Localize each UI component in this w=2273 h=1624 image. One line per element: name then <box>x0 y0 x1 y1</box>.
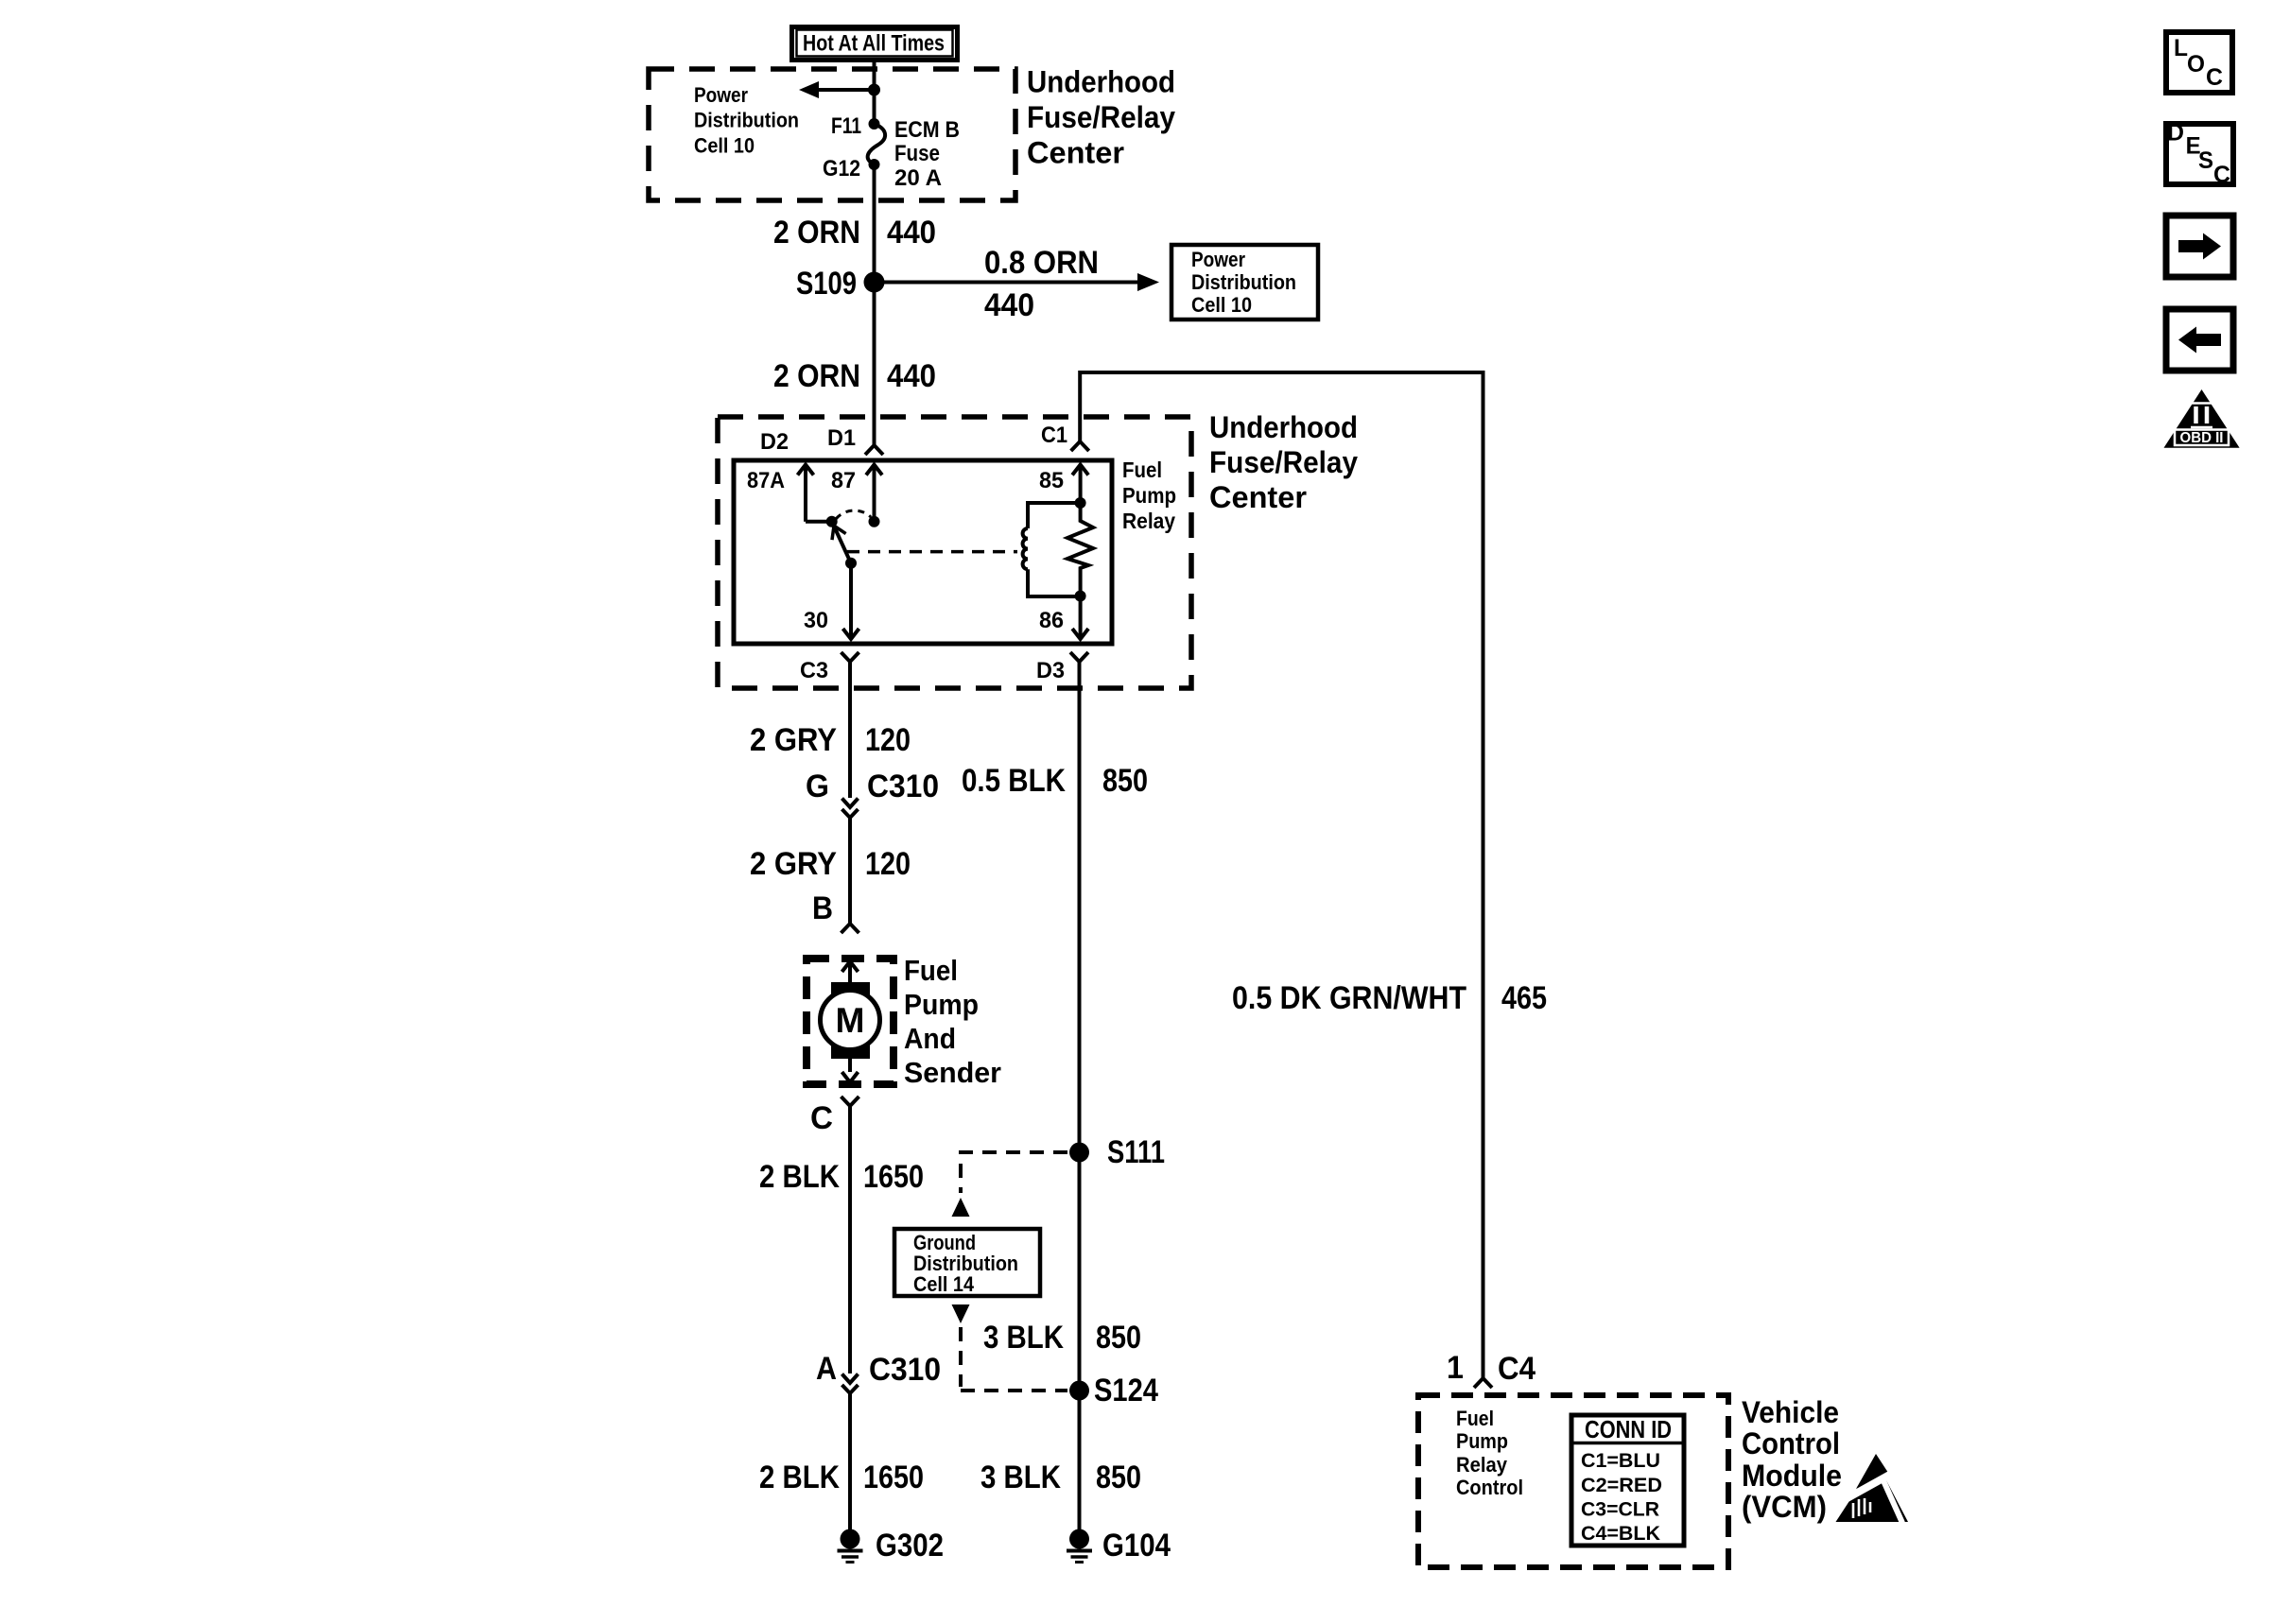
wire label: 0.8 ORN 440 <box>984 245 1099 323</box>
svg-text:120: 120 <box>865 722 911 758</box>
ESD sensitive symbol <box>1836 1454 1909 1523</box>
svg-text:CONN ID: CONN ID <box>1585 1415 1672 1443</box>
svg-text:85: 85 <box>1039 468 1064 493</box>
svg-text:Hot At All Times: Hot At All Times <box>803 31 945 57</box>
svg-text:(VCM): (VCM) <box>1742 1490 1827 1524</box>
svg-text:2 BLK: 2 BLK <box>759 1460 840 1495</box>
node S111 <box>1069 1134 1165 1170</box>
label: ECM B Fuse 20 A <box>894 117 960 191</box>
connector B <box>812 890 859 933</box>
svg-text:C: C <box>810 1100 833 1136</box>
svg-text:2 BLK: 2 BLK <box>759 1159 840 1195</box>
connector D3 <box>1036 652 1088 683</box>
svg-text:30: 30 <box>804 608 828 633</box>
connector C1 <box>1041 423 1089 451</box>
wire: D3 to S111 (0.5 BLK 850) <box>1078 662 1082 1391</box>
wire label: 2 BLK 1650 <box>759 1460 924 1495</box>
relay pin 87A <box>747 465 832 522</box>
icon: DESC box <box>2166 120 2233 188</box>
connector C <box>810 1097 859 1136</box>
svg-text:B: B <box>812 890 833 926</box>
connector D1 <box>827 425 883 455</box>
svg-text:G104: G104 <box>1102 1528 1171 1564</box>
svg-text:2 ORN: 2 ORN <box>773 215 860 251</box>
svg-text:C: C <box>2213 162 2230 188</box>
svg-text:C4: C4 <box>1498 1351 1536 1387</box>
wire: fuel pump C to C310 A (2 BLK 1650) <box>848 1106 852 1373</box>
ground G104 <box>1067 1528 1171 1564</box>
connector C3 <box>800 652 859 683</box>
svg-text:Pump: Pump <box>1456 1429 1508 1453</box>
relay pin 87 <box>831 465 882 522</box>
pin label G12 <box>823 156 860 181</box>
svg-text:Underhood: Underhood <box>1209 410 1358 444</box>
svg-text:850: 850 <box>1096 1460 1141 1495</box>
svg-text:L: L <box>2174 35 2188 61</box>
svg-text:120: 120 <box>865 846 911 882</box>
CONN ID table <box>1571 1415 1684 1546</box>
icon: back arrow box <box>2166 309 2233 371</box>
node S124 <box>1069 1373 1158 1408</box>
pin label F11 <box>831 113 861 139</box>
pin label D2 <box>760 429 789 455</box>
dashed link ground distribution to S124 <box>952 1304 1068 1391</box>
svg-text:G: G <box>806 769 829 804</box>
svg-text:G302: G302 <box>876 1528 944 1564</box>
wire: C3 to connector C310 (2 GRY 120) <box>848 662 852 798</box>
svg-text:440: 440 <box>887 215 936 251</box>
wire: C310 to fuel pump B (2 GRY 120) <box>848 818 852 924</box>
label: Fuel Pump Relay Control <box>1456 1407 1523 1499</box>
svg-text:C310: C310 <box>869 1352 941 1388</box>
svg-text:Power: Power <box>694 83 748 107</box>
svg-text:D: D <box>2167 120 2184 147</box>
svg-text:C3=CLR: C3=CLR <box>1581 1498 1659 1521</box>
connector C310 (pin G) <box>806 769 939 818</box>
svg-text:Fuse/Relay: Fuse/Relay <box>1209 445 1358 479</box>
node S109 <box>796 266 885 302</box>
wire label: 3 BLK 850 <box>983 1320 1141 1356</box>
svg-text:Distribution: Distribution <box>694 109 799 132</box>
wire label: 0.5 DK GRN/WHT 465 <box>1232 980 1547 1016</box>
label: Underhood Fuse/Relay Center (relay) <box>1209 410 1358 514</box>
svg-text:Center: Center <box>1209 480 1307 514</box>
relay: Fuel Pump Relay <box>734 460 1112 644</box>
svg-text:0.5 DK GRN/WHT: 0.5 DK GRN/WHT <box>1232 980 1466 1016</box>
svg-text:Cell 10: Cell 10 <box>1191 293 1252 317</box>
relay pin 30 <box>804 563 859 639</box>
svg-text:D3: D3 <box>1036 658 1065 683</box>
svg-text:Relay: Relay <box>1456 1453 1508 1477</box>
connector C4 <box>1447 1350 1536 1388</box>
svg-text:Pump: Pump <box>1122 483 1176 508</box>
svg-text:S109: S109 <box>796 266 857 302</box>
wire: fuse G12 down to splice S109 (2 ORN 440) <box>873 164 876 283</box>
wire: C1 up and over to VCM C4 (0.5 DK GRN/WHT 465) <box>1080 372 1483 1378</box>
svg-text:1650: 1650 <box>863 1460 924 1495</box>
svg-text:20 A: 20 A <box>894 165 942 191</box>
svg-text:F11: F11 <box>831 113 861 139</box>
label: Fuel Pump And Sender <box>904 954 1001 1089</box>
svg-text:G12: G12 <box>823 156 860 181</box>
relay pin 86 <box>1039 596 1088 640</box>
svg-text:Fuse: Fuse <box>894 141 940 166</box>
svg-text:87A: 87A <box>747 468 785 493</box>
svg-text:2 GRY: 2 GRY <box>750 846 837 882</box>
label: Power Distribution Cell 10 (in fuse box) <box>694 83 799 158</box>
svg-text:0.5 BLK: 0.5 BLK <box>962 763 1066 799</box>
svg-text:Cell 14: Cell 14 <box>913 1272 975 1296</box>
wire label: 2 ORN 440 <box>773 215 936 251</box>
label: Underhood Fuse/Relay Center (top) <box>1027 65 1175 170</box>
svg-text:S124: S124 <box>1094 1373 1158 1408</box>
svg-text:C2=RED: C2=RED <box>1581 1474 1662 1496</box>
svg-text:Underhood: Underhood <box>1027 65 1175 99</box>
svg-text:850: 850 <box>1096 1320 1141 1356</box>
svg-text:440: 440 <box>984 287 1034 323</box>
dashed linkage switch-coil <box>847 550 1017 554</box>
svg-text:Fuse/Relay: Fuse/Relay <box>1027 100 1175 134</box>
box: Power Distribution Cell 10 <box>1171 245 1318 320</box>
svg-text:2 GRY: 2 GRY <box>750 722 837 758</box>
svg-text:C1=BLU: C1=BLU <box>1581 1449 1660 1472</box>
svg-text:Distribution: Distribution <box>1191 270 1296 294</box>
svg-text:Pump: Pump <box>904 988 979 1021</box>
svg-text:0.8 ORN: 0.8 ORN <box>984 245 1099 281</box>
svg-text:Vehicle: Vehicle <box>1742 1395 1839 1429</box>
wire label: 0.5 BLK 850 <box>962 763 1148 799</box>
svg-text:2 ORN: 2 ORN <box>773 358 860 394</box>
arrow: to Power Distribution Cell 10 (left) <box>799 81 875 98</box>
label: Vehicle Control Module (VCM) <box>1742 1395 1842 1524</box>
fuel pump motor M <box>821 961 880 1082</box>
svg-text:And: And <box>904 1022 956 1055</box>
svg-text:OBD II: OBD II <box>2180 430 2224 446</box>
svg-text:440: 440 <box>887 358 936 394</box>
svg-text:465: 465 <box>1501 980 1547 1016</box>
dashed link S111 to ground distribution <box>952 1152 1068 1217</box>
svg-text:1: 1 <box>1447 1350 1464 1386</box>
svg-text:Relay: Relay <box>1122 509 1175 533</box>
svg-text:3 BLK: 3 BLK <box>980 1460 1061 1495</box>
svg-text:S111: S111 <box>1107 1134 1165 1170</box>
svg-text:Fuel: Fuel <box>904 954 958 987</box>
wire: S109 down to relay connector D1 (2 ORN 440) <box>873 283 876 446</box>
connector C310 (pin A) <box>816 1351 941 1393</box>
wire: S109 branch to power distribution (0.8 ORN 440) <box>875 273 1160 291</box>
box: Ground Distribution Cell 14 <box>894 1229 1040 1296</box>
svg-text:87: 87 <box>831 468 856 493</box>
svg-text:Sender: Sender <box>904 1056 1001 1089</box>
fuse F11/G12: ECM B Fuse 20 A <box>868 118 885 170</box>
underhood fuse/relay center enclosure (top) <box>649 69 1015 200</box>
svg-text:86: 86 <box>1039 608 1064 633</box>
ground G302 <box>838 1528 945 1564</box>
wire: S124 to ground G104 (3 BLK 850) <box>1078 1391 1082 1529</box>
fuel pump and sender enclosure <box>807 959 894 1084</box>
svg-text:Control: Control <box>1742 1426 1840 1460</box>
svg-text:Cell 10: Cell 10 <box>694 134 755 158</box>
svg-text:D1: D1 <box>827 425 856 451</box>
svg-text:Fuel: Fuel <box>1456 1407 1494 1430</box>
relay coil <box>1023 497 1086 602</box>
wire label: 3 BLK 850 <box>980 1460 1141 1495</box>
wire: C310 A to ground G302 (2 BLK 1650) <box>848 1393 852 1529</box>
wire label: 2 BLK 1650 <box>759 1159 924 1195</box>
label: Fuel Pump Relay <box>1122 458 1176 533</box>
svg-text:C310: C310 <box>867 769 939 804</box>
svg-text:A: A <box>816 1351 837 1387</box>
svg-text:Center: Center <box>1027 136 1124 170</box>
icon: OBD II triangle <box>2164 389 2240 448</box>
svg-text:C: C <box>2206 64 2223 91</box>
icon: forward arrow box <box>2166 216 2233 277</box>
svg-text:Control: Control <box>1456 1476 1523 1499</box>
vehicle control module enclosure <box>1418 1395 1728 1567</box>
relay pin 85 <box>1039 465 1088 504</box>
wire label: 2 GRY 120 <box>750 722 911 758</box>
svg-text:ECM B: ECM B <box>894 117 960 143</box>
icon: LOC box <box>2166 32 2232 93</box>
wire: battery feed into fuse F11 <box>873 60 876 124</box>
label box: Hot At All Times <box>792 27 958 60</box>
svg-text:D2: D2 <box>760 429 789 455</box>
wire label: 2 ORN 440 <box>773 358 936 394</box>
relay coil resistor <box>1067 503 1093 596</box>
svg-text:Power: Power <box>1191 248 1245 271</box>
svg-text:M: M <box>836 1001 865 1040</box>
svg-text:Fuel: Fuel <box>1122 458 1162 482</box>
relay switch contacts and lever <box>826 510 880 569</box>
svg-text:3 BLK: 3 BLK <box>983 1320 1064 1356</box>
wire label: 2 GRY 120 <box>750 846 911 882</box>
node: tap to power distribution <box>868 84 880 96</box>
svg-text:850: 850 <box>1102 763 1148 799</box>
svg-text:O: O <box>2187 51 2205 78</box>
svg-text:S: S <box>2198 147 2213 174</box>
svg-text:Module: Module <box>1742 1459 1842 1493</box>
underhood fuse/relay center enclosure (relay) <box>718 417 1191 688</box>
svg-text:C1: C1 <box>1041 423 1067 448</box>
svg-text:C3: C3 <box>800 658 828 683</box>
svg-text:C4=BLK: C4=BLK <box>1581 1522 1660 1545</box>
svg-text:1650: 1650 <box>863 1159 924 1195</box>
